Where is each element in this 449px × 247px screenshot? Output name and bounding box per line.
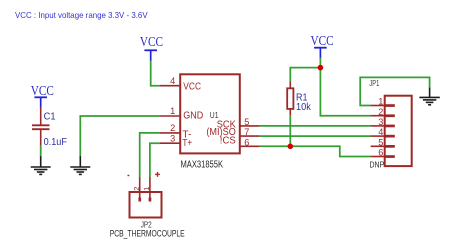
svg-text:DNP: DNP xyxy=(370,160,385,170)
wire junction to R1 top xyxy=(290,68,320,82)
svg-text:C1: C1 xyxy=(44,111,56,122)
pin 4 xyxy=(371,135,385,137)
svg-text:MAX31855K: MAX31855K xyxy=(181,159,224,170)
wire C1 to ground xyxy=(40,145,42,157)
wire R1 bottom to junction B xyxy=(289,115,291,146)
svg-text:3: 3 xyxy=(170,133,175,143)
pin 5 xyxy=(371,145,385,147)
svg-text:T+: T+ xyxy=(182,138,192,149)
svg-text:VCC: VCC xyxy=(311,33,334,48)
svg-text:JP1: JP1 xyxy=(369,78,379,88)
svg-text:4: 4 xyxy=(170,76,175,86)
pin 4 VCC stub xyxy=(160,85,180,87)
minus label xyxy=(128,175,130,177)
pin 3 T+ stub xyxy=(160,142,180,144)
svg-text:2: 2 xyxy=(170,123,175,133)
capacitor C1 xyxy=(32,107,67,148)
connector JP2 xyxy=(110,172,185,238)
supply VCC2 (above U1 pin4) xyxy=(140,34,163,61)
svg-text:0.1uF: 0.1uF xyxy=(44,137,67,148)
supply VCC3 (above R1) xyxy=(311,33,334,58)
ground GND3 (right of JP1) xyxy=(419,88,439,105)
svg-text:VCC: VCC xyxy=(183,81,201,92)
pin 6 xyxy=(371,156,385,158)
wire T- net xyxy=(140,133,160,178)
connector JP1 xyxy=(369,78,411,170)
svg-text:10k: 10k xyxy=(296,102,312,113)
svg-text:!CS: !CS xyxy=(220,136,236,147)
wire T+ net xyxy=(150,143,160,178)
svg-text:VCC: VCC xyxy=(31,83,54,98)
pin 3 xyxy=(371,125,385,127)
pin 1 GND stub xyxy=(160,115,180,117)
wire SCK net xyxy=(260,125,371,127)
svg-text:1: 1 xyxy=(142,187,151,191)
junction dot B xyxy=(288,144,294,150)
wire CS net xyxy=(260,146,371,156)
IC U1 MAX31855K xyxy=(160,74,260,170)
wire GND net to U1 pin1 xyxy=(80,116,160,157)
svg-text:VCC: VCC xyxy=(140,34,163,49)
wire GND net to JP1 pin1 xyxy=(360,77,429,105)
svg-text:7: 7 xyxy=(244,127,249,137)
svg-text:6: 6 xyxy=(244,137,249,147)
svg-text:PCB_THERMOCOUPLE: PCB_THERMOCOUPLE xyxy=(110,228,185,238)
svg-text:4: 4 xyxy=(378,127,383,137)
svg-text:2: 2 xyxy=(378,107,383,117)
svg-text:5: 5 xyxy=(378,137,383,147)
ground GND1 (under C1) xyxy=(31,156,51,174)
pin 1 xyxy=(371,105,385,107)
pin 5 SCK stub xyxy=(240,125,260,127)
pin 2 xyxy=(371,115,385,117)
junction dot A xyxy=(318,65,324,71)
wire MISO net xyxy=(260,135,371,137)
svg-text:1: 1 xyxy=(378,97,383,107)
svg-text:VCC : Input voltage range 3.3V: VCC : Input voltage range 3.3V - 3.6V xyxy=(15,11,148,20)
pin 7 (MI)SO stub xyxy=(240,135,260,137)
ground GND2 xyxy=(70,156,90,174)
svg-text:GND: GND xyxy=(183,110,203,121)
resistor R1 xyxy=(287,82,312,116)
wire VCC2 to U1 pin4 xyxy=(151,61,160,86)
pin 6 !CS stub xyxy=(240,145,260,147)
svg-text:U1: U1 xyxy=(210,110,219,120)
pin 2 T- stub xyxy=(160,132,180,134)
wire VCC net to JP1 pin2 xyxy=(320,68,370,116)
svg-text:3: 3 xyxy=(378,117,383,127)
svg-text:6: 6 xyxy=(378,148,383,158)
svg-text:5: 5 xyxy=(244,117,249,127)
svg-text:2: 2 xyxy=(132,187,141,191)
svg-text:1: 1 xyxy=(170,106,175,116)
supply VCC1 (above C1) xyxy=(31,83,54,107)
wire VCC3 down to junction xyxy=(319,58,321,68)
plus label xyxy=(155,173,160,175)
